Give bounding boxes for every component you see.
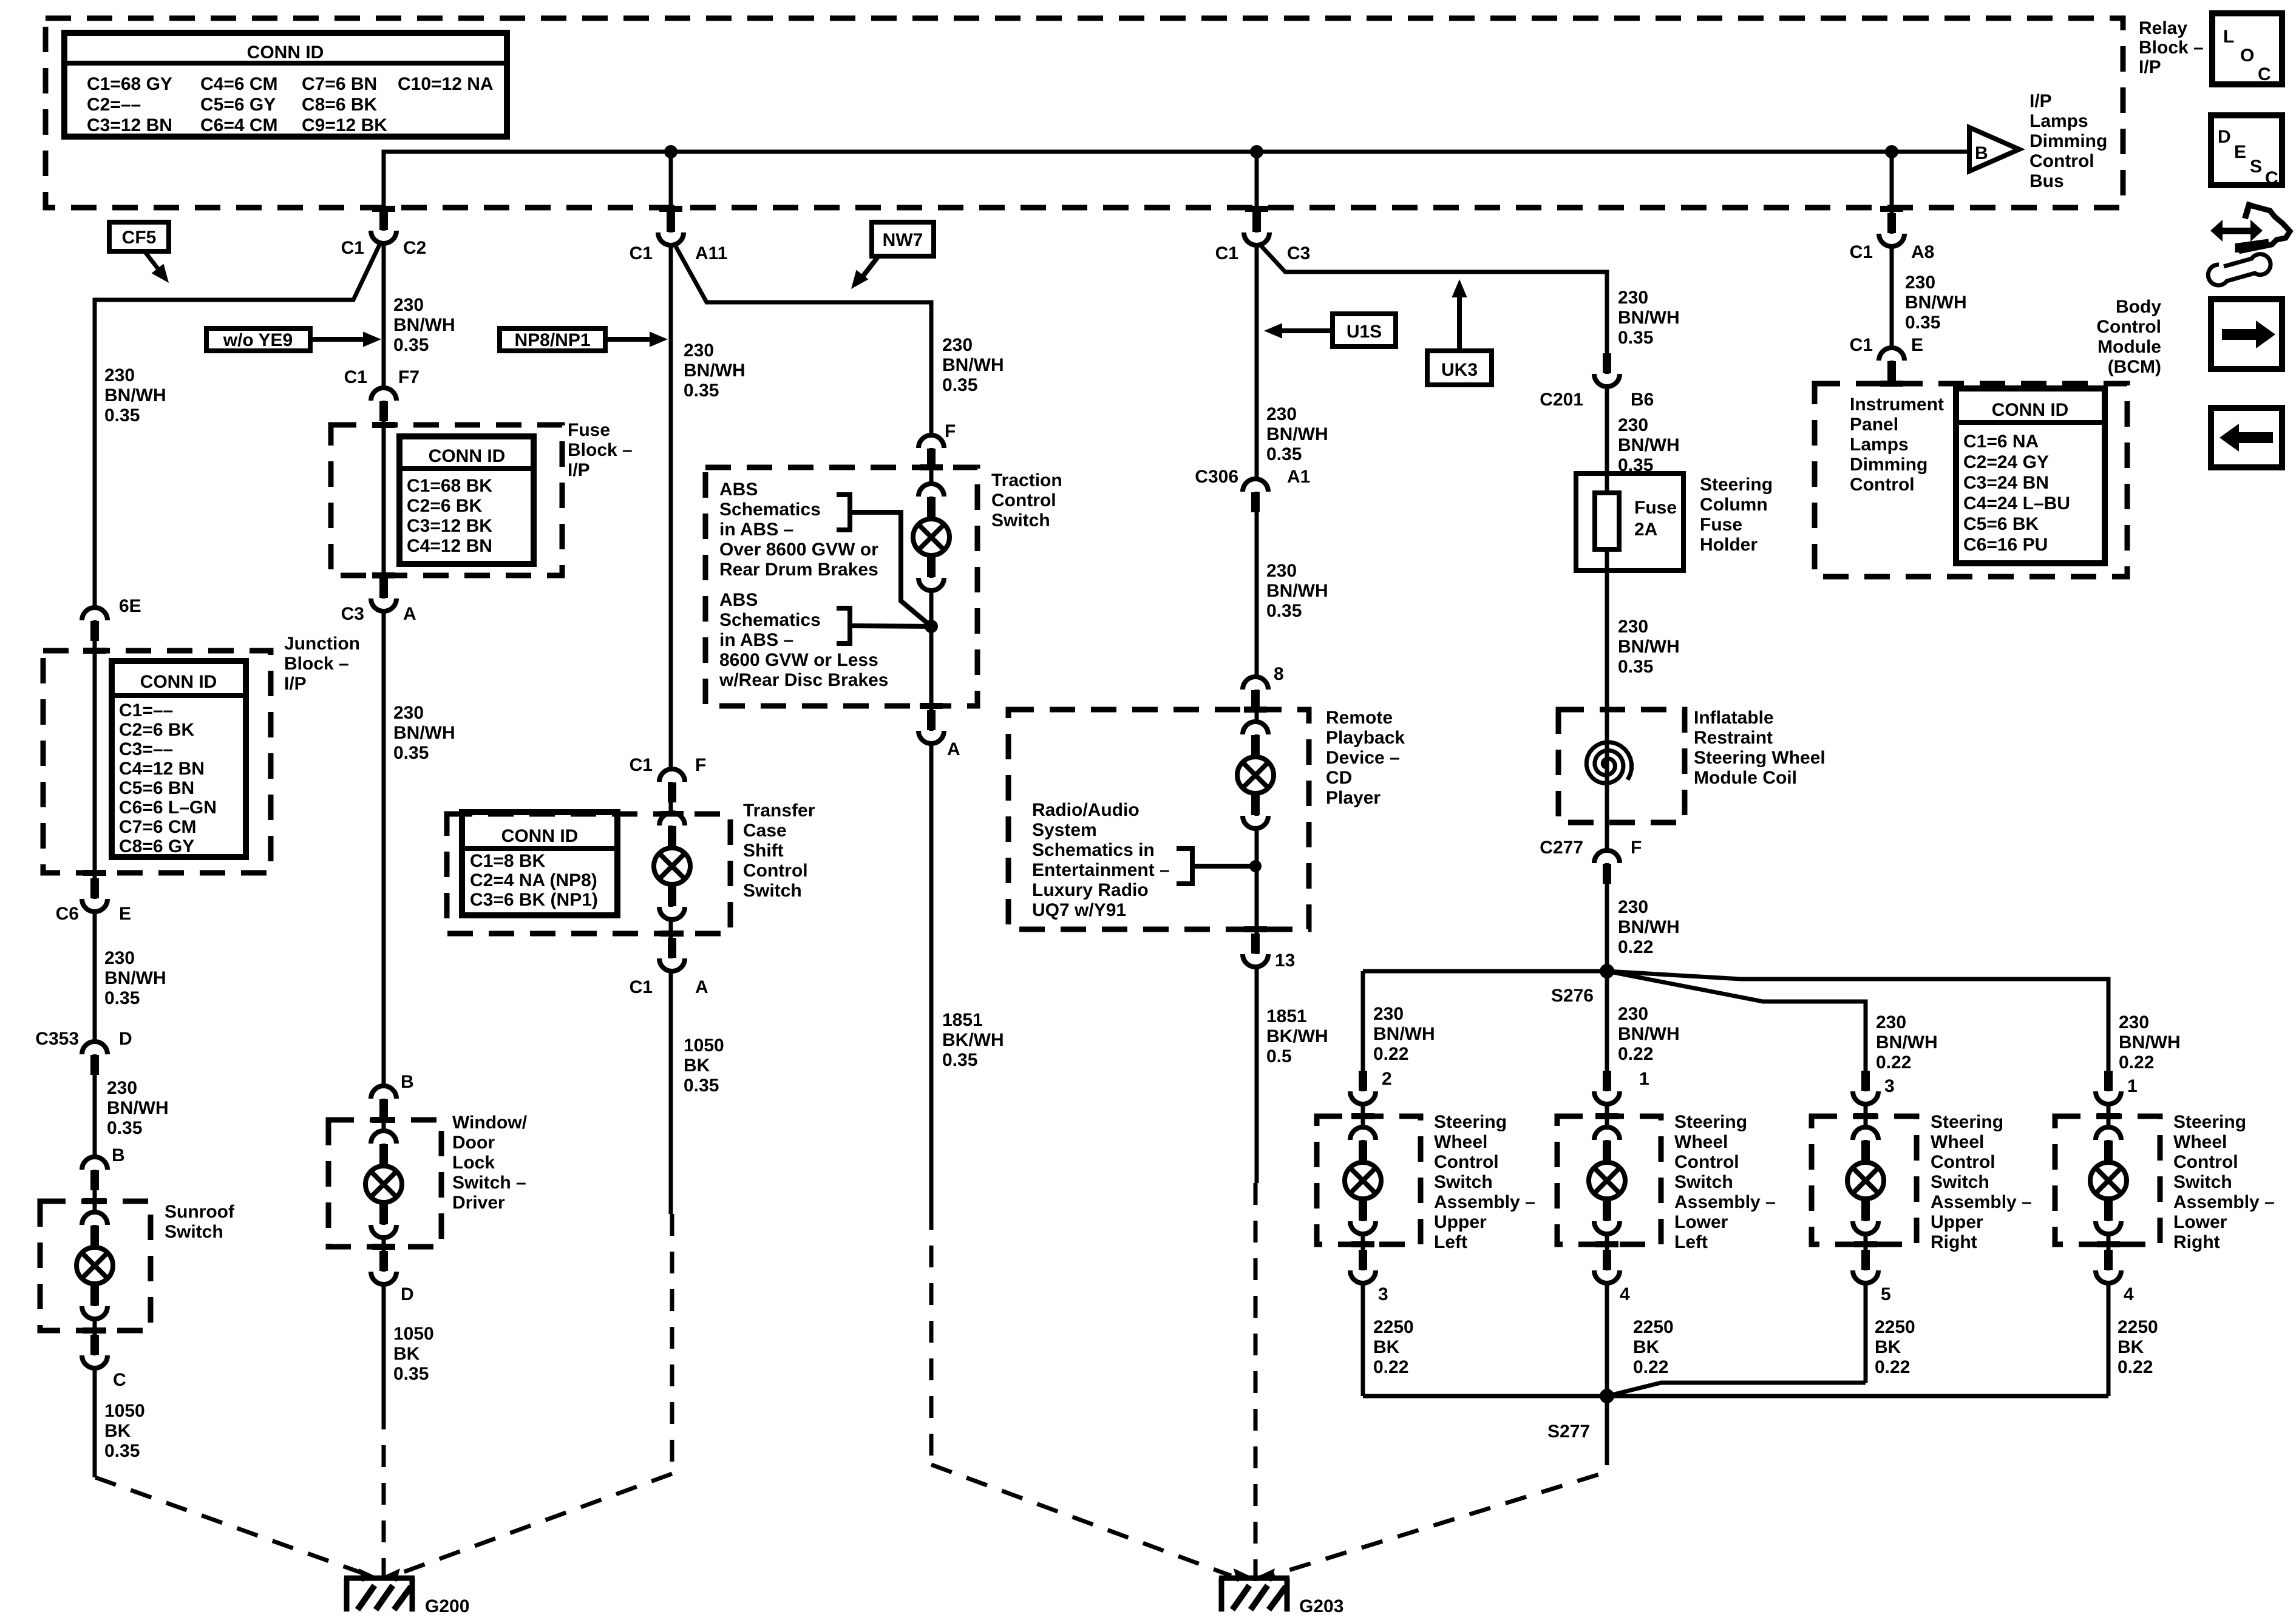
svg-text:230: 230 bbox=[1618, 1004, 1648, 1024]
svg-text:Control: Control bbox=[1434, 1152, 1499, 1172]
svg-text:Fuse: Fuse bbox=[1700, 515, 1742, 535]
svg-text:8600 GVW or Less: 8600 GVW or Less bbox=[719, 650, 878, 670]
svg-text:Module: Module bbox=[2097, 337, 2161, 357]
svg-text:C3=12 BN: C3=12 BN bbox=[87, 115, 172, 135]
svg-text:Dimming: Dimming bbox=[1850, 455, 1927, 475]
svg-text:(BCM): (BCM) bbox=[2108, 357, 2161, 377]
svg-text:C1=8 BK: C1=8 BK bbox=[470, 851, 546, 871]
svg-text:in ABS –: in ABS – bbox=[719, 520, 793, 540]
svg-text:Control: Control bbox=[991, 490, 1056, 510]
svg-text:13: 13 bbox=[1275, 951, 1295, 971]
svg-text:Lock: Lock bbox=[452, 1153, 495, 1173]
svg-text:CF5: CF5 bbox=[122, 228, 157, 248]
svg-text:A8: A8 bbox=[1911, 242, 1934, 262]
svg-text:A11: A11 bbox=[695, 243, 727, 263]
svg-text:Instrument: Instrument bbox=[1850, 395, 1944, 415]
svg-text:I/P: I/P bbox=[2139, 57, 2161, 77]
svg-text:Right: Right bbox=[2173, 1232, 2220, 1252]
svg-text:Block –: Block – bbox=[284, 654, 349, 674]
svg-text:System: System bbox=[1032, 820, 1097, 840]
svg-text:BN/WH: BN/WH bbox=[104, 385, 166, 405]
svg-text:BK: BK bbox=[2118, 1337, 2144, 1357]
svg-text:U1S: U1S bbox=[1347, 322, 1382, 342]
svg-text:BN/WH: BN/WH bbox=[684, 361, 746, 381]
svg-text:Panel: Panel bbox=[1850, 415, 1898, 435]
svg-text:0.35: 0.35 bbox=[942, 1050, 977, 1070]
svg-text:0.35: 0.35 bbox=[1618, 328, 1653, 348]
svg-text:Steering: Steering bbox=[1931, 1112, 2003, 1132]
svg-text:Junction: Junction bbox=[284, 634, 360, 654]
svg-text:0.22: 0.22 bbox=[1633, 1357, 1668, 1377]
svg-text:230: 230 bbox=[1266, 404, 1297, 424]
svg-text:Assembly –: Assembly – bbox=[1674, 1192, 1776, 1212]
svg-text:0.35: 0.35 bbox=[104, 1441, 140, 1461]
svg-text:Control: Control bbox=[743, 861, 808, 881]
svg-text:230: 230 bbox=[107, 1078, 137, 1098]
svg-text:230: 230 bbox=[393, 703, 424, 723]
svg-text:C2=6 BK: C2=6 BK bbox=[119, 720, 195, 740]
svg-text:Control: Control bbox=[1674, 1152, 1739, 1172]
svg-text:Entertainment –: Entertainment – bbox=[1032, 860, 1170, 880]
svg-text:Holder: Holder bbox=[1700, 535, 1758, 555]
svg-text:CONN ID: CONN ID bbox=[140, 672, 217, 692]
svg-text:G203: G203 bbox=[1299, 1596, 1343, 1616]
svg-text:Control: Control bbox=[2173, 1152, 2238, 1172]
svg-text:Assembly –: Assembly – bbox=[1434, 1192, 1535, 1212]
svg-text:6E: 6E bbox=[119, 596, 141, 616]
svg-text:0.35: 0.35 bbox=[942, 375, 977, 395]
svg-text:230: 230 bbox=[1618, 897, 1648, 917]
svg-text:Steering: Steering bbox=[1674, 1112, 1747, 1132]
svg-text:Steering: Steering bbox=[2173, 1112, 2246, 1132]
svg-text:1851: 1851 bbox=[942, 1010, 983, 1030]
svg-text:Door: Door bbox=[452, 1133, 495, 1153]
svg-text:BK/WH: BK/WH bbox=[942, 1030, 1004, 1050]
svg-text:CONN ID: CONN ID bbox=[429, 446, 506, 466]
svg-text:C9=12 BK: C9=12 BK bbox=[302, 115, 387, 135]
svg-text:1: 1 bbox=[2127, 1076, 2138, 1096]
svg-text:1851: 1851 bbox=[1266, 1006, 1307, 1026]
svg-text:C6=6 L–GN: C6=6 L–GN bbox=[119, 798, 217, 818]
svg-text:0.35: 0.35 bbox=[1905, 313, 1940, 333]
svg-text:0.35: 0.35 bbox=[1618, 455, 1653, 475]
svg-text:Block –: Block – bbox=[568, 440, 633, 460]
svg-text:UQ7 w/Y91: UQ7 w/Y91 bbox=[1032, 900, 1126, 920]
svg-text:S: S bbox=[2250, 157, 2262, 177]
svg-text:ABS: ABS bbox=[719, 480, 758, 500]
svg-text:Traction: Traction bbox=[991, 470, 1062, 490]
svg-text:Restraint: Restraint bbox=[1694, 728, 1773, 748]
svg-text:C4=12 BN: C4=12 BN bbox=[407, 536, 492, 556]
svg-text:1: 1 bbox=[1639, 1069, 1649, 1089]
svg-text:CD: CD bbox=[1326, 768, 1352, 788]
svg-text:CONN ID: CONN ID bbox=[247, 42, 324, 63]
svg-text:C10=12 NA: C10=12 NA bbox=[398, 74, 494, 94]
svg-text:0.35: 0.35 bbox=[104, 405, 140, 425]
svg-text:Switch –: Switch – bbox=[452, 1173, 526, 1193]
svg-text:BK: BK bbox=[1875, 1337, 1901, 1357]
svg-text:Control: Control bbox=[2096, 317, 2161, 337]
svg-text:Lower: Lower bbox=[1674, 1212, 1728, 1232]
svg-text:2A: 2A bbox=[1634, 520, 1657, 540]
svg-text:C6=16 PU: C6=16 PU bbox=[1963, 535, 2048, 555]
svg-text:5: 5 bbox=[1881, 1284, 1891, 1304]
svg-text:0.35: 0.35 bbox=[393, 335, 429, 355]
svg-text:w/Rear Disc Brakes: w/Rear Disc Brakes bbox=[719, 670, 889, 690]
svg-text:C3=24 BN: C3=24 BN bbox=[1963, 473, 2049, 493]
svg-text:0.35: 0.35 bbox=[393, 1364, 429, 1384]
svg-text:BN/WH: BN/WH bbox=[2119, 1032, 2181, 1053]
svg-text:BN/WH: BN/WH bbox=[1266, 581, 1328, 601]
svg-text:Fuse: Fuse bbox=[1634, 498, 1677, 518]
svg-text:BN/WH: BN/WH bbox=[1618, 1024, 1680, 1044]
svg-text:Steering: Steering bbox=[1700, 475, 1773, 495]
svg-text:Player: Player bbox=[1326, 788, 1381, 808]
svg-text:Rear Drum Brakes: Rear Drum Brakes bbox=[719, 560, 878, 580]
svg-text:Control: Control bbox=[1931, 1152, 1995, 1172]
svg-text:C2=24 GY: C2=24 GY bbox=[1963, 452, 2049, 472]
svg-text:F: F bbox=[1631, 838, 1642, 858]
svg-text:C1: C1 bbox=[1850, 335, 1873, 355]
svg-text:Wheel: Wheel bbox=[1931, 1132, 1984, 1152]
svg-text:in ABS –: in ABS – bbox=[719, 630, 793, 650]
svg-text:C5=6 GY: C5=6 GY bbox=[200, 95, 276, 115]
svg-text:BN/WH: BN/WH bbox=[942, 355, 1004, 375]
svg-text:230: 230 bbox=[104, 365, 135, 385]
svg-text:Steering Wheel: Steering Wheel bbox=[1694, 748, 1826, 768]
svg-text:0.22: 0.22 bbox=[2119, 1053, 2154, 1073]
svg-text:C3: C3 bbox=[1287, 243, 1310, 263]
svg-text:F: F bbox=[695, 755, 706, 775]
svg-text:0.35: 0.35 bbox=[1266, 601, 1302, 621]
svg-text:2250: 2250 bbox=[1875, 1317, 1915, 1337]
svg-text:B6: B6 bbox=[1631, 390, 1654, 410]
svg-text:Switch: Switch bbox=[991, 510, 1050, 531]
svg-text:F: F bbox=[945, 421, 956, 441]
svg-text:Lamps: Lamps bbox=[1850, 435, 1909, 455]
svg-text:3: 3 bbox=[1378, 1284, 1388, 1304]
svg-text:C1=6 NA: C1=6 NA bbox=[1963, 432, 2039, 452]
svg-text:Shift: Shift bbox=[743, 841, 784, 861]
svg-text:1050: 1050 bbox=[104, 1401, 145, 1421]
svg-text:Body: Body bbox=[2116, 297, 2161, 317]
svg-text:Playback: Playback bbox=[1326, 728, 1405, 748]
svg-text:Control: Control bbox=[1850, 475, 1915, 495]
svg-text:C3=6 BK (NP1): C3=6 BK (NP1) bbox=[470, 890, 598, 910]
svg-text:C3=––: C3=–– bbox=[119, 739, 173, 759]
svg-text:NP8/NP1: NP8/NP1 bbox=[514, 330, 590, 350]
svg-text:Dimming: Dimming bbox=[2029, 131, 2107, 151]
svg-text:Wheel: Wheel bbox=[1674, 1132, 1728, 1152]
svg-text:0.22: 0.22 bbox=[1875, 1357, 1910, 1377]
svg-text:Radio/Audio: Radio/Audio bbox=[1032, 800, 1140, 820]
svg-text:BK: BK bbox=[104, 1421, 131, 1441]
svg-text:0.22: 0.22 bbox=[1373, 1044, 1408, 1064]
svg-text:C5=6 BK: C5=6 BK bbox=[1963, 514, 2039, 534]
svg-text:Upper: Upper bbox=[1434, 1212, 1487, 1232]
svg-text:C: C bbox=[2265, 168, 2278, 188]
svg-text:Schematics: Schematics bbox=[719, 610, 821, 630]
svg-text:1050: 1050 bbox=[393, 1324, 434, 1344]
svg-text:ABS: ABS bbox=[719, 590, 758, 610]
svg-text:0.35: 0.35 bbox=[393, 743, 429, 763]
svg-text:Lamps: Lamps bbox=[2029, 111, 2088, 131]
svg-text:C3: C3 bbox=[341, 604, 364, 624]
svg-text:C353: C353 bbox=[35, 1029, 79, 1049]
svg-text:Right: Right bbox=[1931, 1232, 1977, 1252]
svg-text:0.22: 0.22 bbox=[1618, 1044, 1653, 1064]
svg-text:BN/WH: BN/WH bbox=[393, 315, 455, 335]
svg-text:C5=6 BN: C5=6 BN bbox=[119, 778, 194, 798]
svg-text:Block –: Block – bbox=[2139, 38, 2204, 58]
svg-text:0.35: 0.35 bbox=[107, 1118, 142, 1138]
svg-text:BN/WH: BN/WH bbox=[1618, 917, 1680, 937]
svg-text:Lower: Lower bbox=[2173, 1212, 2227, 1232]
svg-text:D: D bbox=[401, 1284, 414, 1304]
svg-text:BN/WH: BN/WH bbox=[1876, 1032, 1938, 1053]
svg-text:0.5: 0.5 bbox=[1266, 1046, 1292, 1066]
svg-text:C201: C201 bbox=[1540, 390, 1583, 410]
svg-text:Switch: Switch bbox=[1674, 1172, 1733, 1192]
svg-text:B: B bbox=[401, 1072, 414, 1092]
svg-text:230: 230 bbox=[2119, 1012, 2149, 1032]
svg-text:Luxury Radio: Luxury Radio bbox=[1032, 880, 1149, 900]
svg-text:230: 230 bbox=[1876, 1012, 1906, 1032]
svg-text:A1: A1 bbox=[1287, 467, 1310, 487]
svg-text:C2=4 NA (NP8): C2=4 NA (NP8) bbox=[470, 870, 597, 890]
svg-text:2: 2 bbox=[1382, 1069, 1392, 1089]
svg-text:Over 8600 GVW or: Over 8600 GVW or bbox=[719, 540, 878, 560]
svg-text:Fuse: Fuse bbox=[568, 420, 610, 440]
svg-text:C2=6 BK: C2=6 BK bbox=[407, 496, 483, 516]
svg-text:Window/: Window/ bbox=[452, 1113, 528, 1133]
svg-text:Switch: Switch bbox=[165, 1222, 223, 1242]
svg-text:1050: 1050 bbox=[684, 1036, 724, 1056]
svg-text:C1: C1 bbox=[344, 367, 367, 387]
svg-text:A: A bbox=[695, 977, 708, 997]
svg-text:BN/WH: BN/WH bbox=[393, 723, 455, 743]
svg-text:C1: C1 bbox=[630, 243, 653, 263]
svg-text:I/P: I/P bbox=[284, 674, 307, 694]
svg-text:230: 230 bbox=[1618, 415, 1648, 435]
svg-text:D: D bbox=[2218, 127, 2231, 147]
svg-text:2250: 2250 bbox=[2118, 1317, 2158, 1337]
svg-text:C7=6 CM: C7=6 CM bbox=[119, 817, 197, 837]
svg-text:C1: C1 bbox=[1215, 243, 1238, 263]
svg-text:UK3: UK3 bbox=[1441, 360, 1478, 380]
svg-text:Sunroof: Sunroof bbox=[165, 1202, 235, 1222]
svg-text:B: B bbox=[112, 1145, 125, 1165]
svg-text:I/P: I/P bbox=[2029, 91, 2052, 111]
svg-text:C2=––: C2=–– bbox=[87, 95, 141, 115]
svg-text:230: 230 bbox=[1618, 617, 1648, 637]
svg-text:0.35: 0.35 bbox=[684, 1076, 719, 1096]
svg-text:230: 230 bbox=[1373, 1004, 1404, 1024]
svg-text:A: A bbox=[947, 739, 960, 759]
svg-text:Transfer: Transfer bbox=[743, 801, 815, 821]
svg-text:Switch: Switch bbox=[1931, 1172, 1989, 1192]
svg-text:Assembly –: Assembly – bbox=[2173, 1192, 2275, 1212]
svg-text:F7: F7 bbox=[398, 367, 419, 387]
svg-text:C6: C6 bbox=[56, 904, 79, 924]
svg-text:Column: Column bbox=[1700, 495, 1768, 515]
svg-text:C4=24 L–BU: C4=24 L–BU bbox=[1963, 493, 2070, 514]
svg-text:C1=68 BK: C1=68 BK bbox=[407, 476, 492, 496]
svg-text:Case: Case bbox=[743, 821, 787, 841]
svg-text:BN/WH: BN/WH bbox=[1373, 1024, 1435, 1044]
svg-text:D: D bbox=[119, 1029, 132, 1049]
svg-text:Upper: Upper bbox=[1931, 1212, 1983, 1232]
svg-text:I/P: I/P bbox=[568, 460, 590, 480]
svg-text:CONN ID: CONN ID bbox=[501, 826, 579, 846]
svg-text:0.35: 0.35 bbox=[104, 988, 140, 1008]
svg-text:BN/WH: BN/WH bbox=[107, 1098, 169, 1118]
svg-text:2250: 2250 bbox=[1373, 1317, 1414, 1337]
svg-text:E: E bbox=[1911, 335, 1923, 355]
svg-text:BN/WH: BN/WH bbox=[1905, 293, 1967, 313]
svg-text:C1: C1 bbox=[630, 977, 653, 997]
svg-text:Assembly –: Assembly – bbox=[1931, 1192, 2032, 1212]
svg-text:0.22: 0.22 bbox=[1373, 1357, 1408, 1377]
svg-text:230: 230 bbox=[942, 335, 973, 355]
svg-text:C8=6 GY: C8=6 GY bbox=[119, 836, 194, 856]
svg-text:Left: Left bbox=[1434, 1232, 1467, 1252]
svg-text:C1: C1 bbox=[630, 755, 653, 775]
svg-text:0.22: 0.22 bbox=[1618, 937, 1653, 957]
svg-text:Left: Left bbox=[1674, 1232, 1708, 1252]
svg-text:Module Coil: Module Coil bbox=[1694, 768, 1797, 788]
svg-text:230: 230 bbox=[1905, 273, 1935, 293]
svg-text:C1: C1 bbox=[1850, 242, 1873, 262]
svg-text:0.35: 0.35 bbox=[1266, 444, 1302, 464]
svg-text:C306: C306 bbox=[1195, 467, 1238, 487]
svg-text:2250: 2250 bbox=[1633, 1317, 1674, 1337]
svg-text:BN/WH: BN/WH bbox=[1266, 424, 1328, 444]
svg-text:0.22: 0.22 bbox=[1876, 1053, 1911, 1073]
svg-text:Relay: Relay bbox=[2139, 18, 2187, 38]
svg-text:0.35: 0.35 bbox=[684, 381, 719, 401]
svg-text:C2: C2 bbox=[403, 238, 426, 258]
svg-text:Driver: Driver bbox=[452, 1193, 505, 1213]
svg-text:4: 4 bbox=[2124, 1284, 2134, 1304]
svg-text:Inflatable: Inflatable bbox=[1694, 708, 1774, 728]
svg-text:Schematics: Schematics bbox=[719, 500, 821, 520]
svg-text:BK/WH: BK/WH bbox=[1266, 1026, 1328, 1046]
svg-text:Switch: Switch bbox=[2173, 1172, 2232, 1192]
svg-text:G200: G200 bbox=[425, 1596, 469, 1616]
svg-text:Steering: Steering bbox=[1434, 1112, 1507, 1132]
svg-text:CONN ID: CONN ID bbox=[1992, 400, 2069, 420]
svg-text:C: C bbox=[113, 1370, 126, 1390]
svg-text:BK: BK bbox=[1633, 1337, 1660, 1357]
svg-text:Device –: Device – bbox=[1326, 748, 1400, 768]
svg-text:w/o YE9: w/o YE9 bbox=[223, 330, 293, 350]
svg-text:Control: Control bbox=[2029, 151, 2094, 171]
svg-text:B: B bbox=[1975, 143, 1988, 163]
svg-text:C4=6 CM: C4=6 CM bbox=[200, 74, 278, 94]
svg-text:C6=4 CM: C6=4 CM bbox=[200, 115, 278, 135]
svg-text:Wheel: Wheel bbox=[2173, 1132, 2227, 1152]
svg-text:C7=6 BN: C7=6 BN bbox=[302, 74, 377, 94]
svg-text:3: 3 bbox=[1884, 1076, 1895, 1096]
svg-text:C4=12 BN: C4=12 BN bbox=[119, 759, 205, 779]
svg-text:C1=68 GY: C1=68 GY bbox=[87, 74, 172, 94]
svg-text:Remote: Remote bbox=[1326, 708, 1393, 728]
svg-text:BN/WH: BN/WH bbox=[104, 968, 166, 988]
svg-text:S276: S276 bbox=[1551, 986, 1594, 1006]
svg-text:230: 230 bbox=[104, 948, 135, 968]
svg-text:E: E bbox=[2234, 142, 2246, 162]
svg-text:C1=––: C1=–– bbox=[119, 700, 173, 720]
svg-text:E: E bbox=[119, 904, 131, 924]
svg-text:Schematics in: Schematics in bbox=[1032, 840, 1155, 860]
svg-text:BK: BK bbox=[1373, 1337, 1400, 1357]
svg-text:S277: S277 bbox=[1547, 1422, 1590, 1442]
svg-text:BN/WH: BN/WH bbox=[1618, 435, 1680, 455]
svg-text:Switch: Switch bbox=[743, 881, 802, 901]
svg-text:230: 230 bbox=[684, 341, 714, 361]
svg-text:A: A bbox=[403, 604, 416, 624]
svg-text:C1: C1 bbox=[341, 238, 364, 258]
svg-text:8: 8 bbox=[1274, 664, 1284, 684]
svg-text:BK: BK bbox=[684, 1056, 710, 1076]
svg-text:0.22: 0.22 bbox=[2118, 1357, 2153, 1377]
svg-text:L: L bbox=[2223, 27, 2234, 47]
svg-text:BK: BK bbox=[393, 1344, 420, 1364]
svg-text:BN/WH: BN/WH bbox=[1618, 308, 1680, 328]
svg-text:0.35: 0.35 bbox=[1618, 657, 1653, 677]
svg-text:O: O bbox=[2240, 46, 2254, 66]
svg-text:C8=6 BK: C8=6 BK bbox=[302, 95, 378, 115]
svg-text:C: C bbox=[2258, 64, 2271, 84]
svg-text:Bus: Bus bbox=[2029, 171, 2064, 191]
svg-text:C277: C277 bbox=[1540, 838, 1583, 858]
svg-text:NW7: NW7 bbox=[883, 230, 923, 250]
svg-text:BN/WH: BN/WH bbox=[1618, 637, 1680, 657]
svg-text:230: 230 bbox=[393, 295, 424, 315]
svg-text:Wheel: Wheel bbox=[1434, 1132, 1487, 1152]
svg-text:Switch: Switch bbox=[1434, 1172, 1493, 1192]
svg-text:230: 230 bbox=[1266, 561, 1297, 581]
svg-text:230: 230 bbox=[1618, 288, 1648, 308]
svg-text:4: 4 bbox=[1620, 1284, 1630, 1304]
svg-text:C3=12 BK: C3=12 BK bbox=[407, 516, 492, 536]
